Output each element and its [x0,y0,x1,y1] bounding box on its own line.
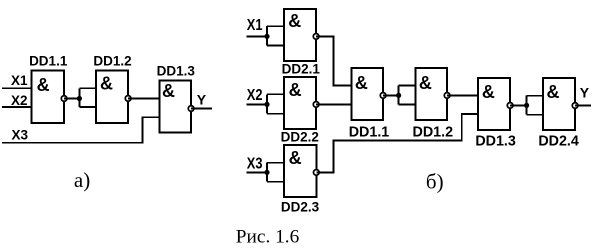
junction node X3 (right circuit) [264,170,269,175]
wire X1 node branch vertical (right circuit) [266,26,268,45]
svg-text:&: & [289,80,302,100]
svg-text:DD1.2: DD1.2 [413,124,454,140]
junction node X1 (right circuit) [264,34,269,39]
svg-text:X2: X2 [247,87,263,104]
wire DD2.1 output to DD1.1 pin 1 (right circuit) [316,36,352,85]
output bubble DD2.3 [314,170,320,176]
output bubble DD2.1 [313,34,319,40]
junction node after DD1.3 (right circuit) [524,103,529,108]
wire X2 input (left circuit) [2,106,32,108]
svg-text:Рис. 1.6: Рис. 1.6 [236,228,299,248]
svg-text:Y: Y [197,91,207,107]
wire X2 branch to DD2.2 pin 1 [267,93,284,95]
svg-text:X1: X1 [247,17,263,34]
output bubble DD1.2 (right circuit) [444,93,450,99]
svg-text:&: & [482,82,495,102]
wire X3 input (right circuit) [247,171,268,173]
svg-text:&: & [37,75,50,95]
wire output Y (left circuit) [191,108,212,110]
gate NAND DD2.4 (right circuit) [543,78,575,130]
gate NAND DD1.2 (right circuit) [416,68,447,120]
output bubble DD2.2 [313,102,319,108]
wire DD1.2 output to DD1.3 pin 1 (left circuit) [128,97,159,99]
svg-text:X3: X3 [247,155,263,172]
wire DD1.1 output to node (right circuit) [383,94,399,96]
output bubble DD1.3 (left circuit) [188,106,194,112]
wire X1 branch to DD2.1 pin 2 [267,44,284,46]
svg-text:DD1.1: DD1.1 [349,124,390,140]
svg-text:X1: X1 [11,73,28,88]
wire X3 branch to DD2.3 pin 2 [267,181,284,183]
wire X1 input (right circuit) [247,35,268,37]
wire branch to DD1.2 pin 1 (left circuit) [79,87,96,89]
gate NAND DD2.3 as inverter (right circuit) [284,145,316,197]
svg-text:DD1.2: DD1.2 [93,53,131,68]
svg-text:DD1.1: DD1.1 [29,53,68,68]
wire branch to DD1.2 pin 2 (right circuit) [399,103,416,105]
wire X3 branch to DD2.3 pin 1 [267,162,284,164]
wire branch to DD1.2 pin 2 (left circuit) [79,106,96,108]
gate NAND DD1.1 (left circuit) [32,71,65,123]
svg-text:&: & [100,74,113,94]
wire node branch vertical (right circuit) [526,96,528,115]
junction node after DD1.1 (right circuit) [396,93,401,98]
wire X2 input (right circuit) [247,103,268,105]
svg-text:DD1.3: DD1.3 [157,63,196,78]
wire DD2.2 output to DD1.1 pin 2 (right circuit) [316,103,352,105]
output bubble DD1.1 (right circuit) [380,93,386,99]
wire branch to DD2.4 pin 1 [527,95,544,97]
gate NAND DD2.1 as inverter (right circuit) [284,9,316,61]
svg-text:DD2.2: DD2.2 [281,129,319,144]
wire X1 input (left circuit) [2,87,32,89]
wire X2 branch to DD2.2 pin 2 [267,113,284,115]
wire X3 node branch vertical (right circuit) [266,163,268,182]
wire node branch vertical (right circuit) [398,86,400,105]
wire DD1.2 output to DD1.3 pin 1 (right circuit) [447,94,478,96]
svg-text:&: & [288,11,301,31]
output bubble DD1.1 (left circuit) [61,96,67,102]
svg-text:&: & [289,148,302,168]
svg-text:DD1.3: DD1.3 [475,134,516,150]
gate NAND DD1.3 (left circuit) [159,81,191,133]
svg-text:X3: X3 [12,127,29,142]
svg-text:&: & [355,73,368,93]
svg-text:&: & [547,82,560,102]
wire DD2.3 output to DD1.3 pin 2 (right circuit) [316,114,478,172]
svg-text:DD2.1: DD2.1 [282,61,321,76]
wire X1 branch to DD2.1 pin 1 [267,25,284,27]
wire branch to DD1.2 pin 1 (right circuit) [399,85,416,87]
svg-text:Y: Y [580,84,590,100]
gate NAND DD2.2 as inverter (right circuit) [284,77,316,129]
junction node after DD1.1 (left circuit) [77,96,82,101]
wire X2 node branch vertical (right circuit) [266,94,268,113]
svg-text:X2: X2 [11,93,28,108]
wire DD1.3 output to node (right circuit) [510,104,526,106]
output bubble DD2.4 [572,103,578,109]
wire node branch vertical (left circuit) [78,88,80,107]
wire branch to DD2.4 pin 2 [527,114,544,116]
output bubble DD1.2 (left circuit) [125,96,131,102]
svg-text:б): б) [426,170,444,194]
wire DD1.1 output to node (left circuit) [64,98,79,100]
junction node X2 (right circuit) [264,102,269,107]
svg-text:DD2.3: DD2.3 [281,200,320,215]
wire X3 input to DD1.3 pin 2 (left circuit) [2,117,159,143]
wire output Y (right circuit) [575,105,591,107]
svg-text:DD2.4: DD2.4 [538,134,579,150]
svg-text:&: & [162,81,175,101]
gate NAND DD1.2 (left circuit) [96,71,128,123]
output bubble DD1.3 (right circuit) [507,103,513,109]
svg-text:&: & [419,73,432,93]
svg-text:а): а) [74,168,90,192]
gate NAND DD1.3 (right circuit) [478,78,510,130]
gate NAND DD1.1 (right circuit) [352,68,383,120]
